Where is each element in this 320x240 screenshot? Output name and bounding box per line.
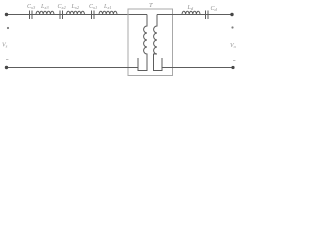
inductor Lx2 <box>67 11 85 14</box>
node output minus mark <box>233 60 235 61</box>
svg-text:Cx1: Cx1 <box>89 4 97 10</box>
svg-text:Cx2: Cx2 <box>58 4 67 10</box>
capacitor Cx2 <box>60 11 63 20</box>
wire top rail output <box>157 14 232 16</box>
svg-text:Lx1: Lx1 <box>103 4 112 10</box>
transformer secondary winding <box>154 15 163 71</box>
wire bottom rail output <box>162 67 233 69</box>
svg-text:Cd: Cd <box>211 6 218 12</box>
wire bottom rail input <box>6 67 138 69</box>
capacitor Cx1 <box>92 11 95 20</box>
node output top terminal <box>230 13 233 16</box>
inductor Lx3 <box>36 11 54 14</box>
wire top rail input <box>6 14 147 16</box>
capacitor Cd <box>206 11 209 20</box>
svg-text:Cx3: Cx3 <box>27 4 36 10</box>
node input bottom terminal <box>5 66 8 69</box>
node input plus mark <box>7 27 9 29</box>
inductor Ld <box>182 11 200 14</box>
svg-text:Vo: Vo <box>230 43 237 49</box>
node output bottom terminal <box>231 66 234 69</box>
node input minus mark <box>6 59 8 60</box>
transformer T box <box>128 9 173 76</box>
svg-text:Vs: Vs <box>2 43 8 49</box>
svg-text:Ld: Ld <box>187 5 194 11</box>
transformer primary winding <box>138 15 147 71</box>
svg-text:T: T <box>149 2 153 9</box>
svg-text:Lx3: Lx3 <box>40 4 49 10</box>
svg-text:Lx2: Lx2 <box>71 4 80 10</box>
capacitor Cx3 <box>30 11 33 20</box>
node output plus mark <box>231 26 233 28</box>
inductor Lx1 <box>99 11 117 14</box>
node input top terminal <box>5 13 8 16</box>
